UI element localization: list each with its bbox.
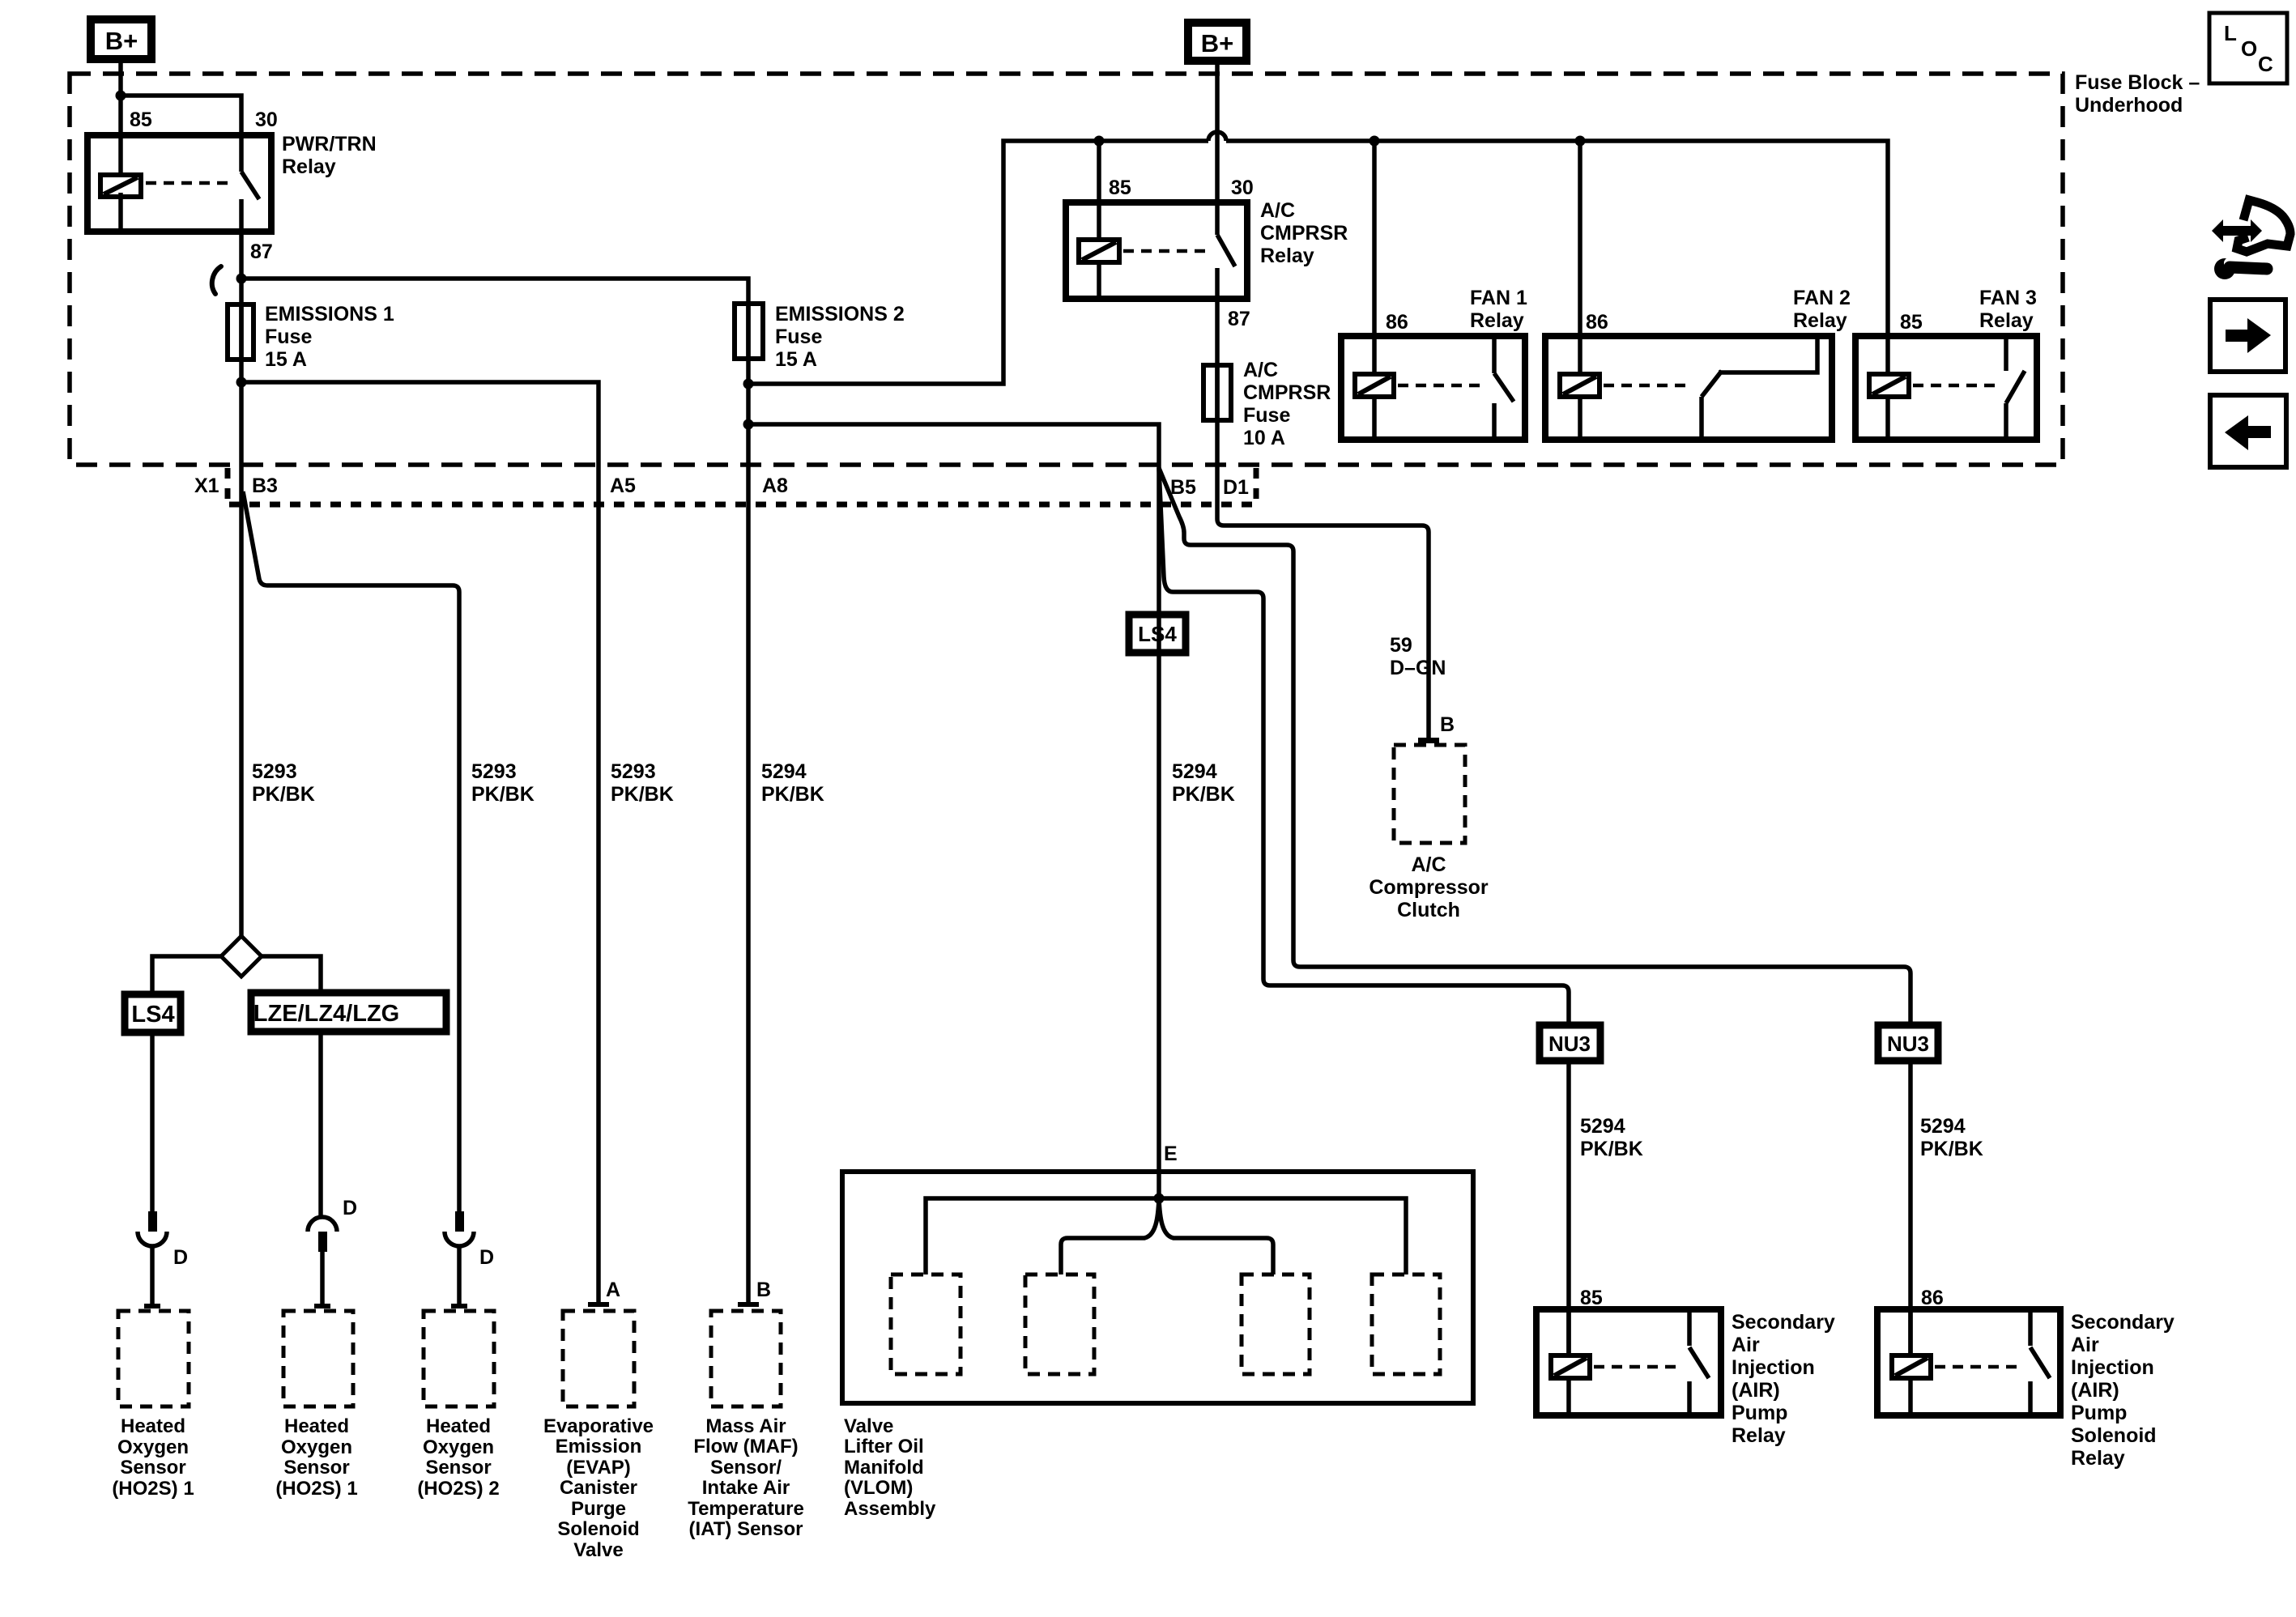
- svg-text:PWR/TRN: PWR/TRN: [282, 133, 377, 155]
- svg-text:PK/BK: PK/BK: [611, 783, 674, 806]
- svg-text:A5: A5: [610, 474, 636, 497]
- svg-text:LS4: LS4: [1138, 622, 1177, 646]
- svg-text:CMPRSR: CMPRSR: [1243, 381, 1331, 404]
- svg-text:Oxygen: Oxygen: [423, 1436, 494, 1458]
- svg-text:5293: 5293: [252, 760, 297, 783]
- svg-text:Purge: Purge: [571, 1498, 626, 1520]
- svg-text:Valve: Valve: [844, 1415, 893, 1437]
- svg-text:A/C: A/C: [1411, 853, 1446, 876]
- svg-text:FAN 3: FAN 3: [1979, 287, 2037, 309]
- svg-text:86: 86: [1586, 311, 1608, 334]
- svg-text:(EVAP): (EVAP): [566, 1457, 631, 1479]
- svg-text:(HO2S) 2: (HO2S) 2: [417, 1478, 499, 1500]
- svg-text:(AIR): (AIR): [2071, 1379, 2119, 1402]
- svg-text:D1: D1: [1223, 476, 1249, 499]
- svg-text:85: 85: [1109, 177, 1131, 199]
- svg-text:Fuse Block –: Fuse Block –: [2075, 71, 2200, 94]
- svg-text:B: B: [1440, 713, 1455, 736]
- svg-text:B+: B+: [1201, 29, 1234, 57]
- svg-text:Injection: Injection: [1732, 1356, 1815, 1379]
- svg-text:FAN 2: FAN 2: [1793, 287, 1851, 309]
- svg-text:D: D: [173, 1246, 188, 1269]
- svg-text:A/C: A/C: [1243, 359, 1278, 381]
- svg-text:A: A: [606, 1279, 620, 1301]
- svg-text:Air: Air: [2071, 1334, 2099, 1356]
- svg-text:59: 59: [1390, 634, 1412, 657]
- svg-text:Pump: Pump: [1732, 1402, 1787, 1424]
- svg-text:Flow (MAF): Flow (MAF): [693, 1436, 798, 1457]
- svg-text:10 A: 10 A: [1243, 427, 1285, 449]
- svg-text:Emission: Emission: [556, 1436, 642, 1457]
- svg-text:C: C: [2258, 52, 2273, 76]
- svg-text:5294: 5294: [1580, 1115, 1625, 1138]
- svg-text:A/C: A/C: [1260, 199, 1295, 222]
- svg-text:A8: A8: [762, 474, 788, 497]
- svg-text:Assembly: Assembly: [844, 1498, 936, 1520]
- svg-text:PK/BK: PK/BK: [1920, 1138, 1983, 1160]
- svg-text:Fuse: Fuse: [265, 326, 312, 348]
- svg-text:PK/BK: PK/BK: [252, 783, 315, 806]
- svg-text:Lifter Oil: Lifter Oil: [844, 1436, 924, 1457]
- svg-text:30: 30: [255, 109, 278, 131]
- svg-text:B: B: [756, 1279, 771, 1301]
- svg-text:Relay: Relay: [2071, 1447, 2125, 1470]
- svg-text:Sensor: Sensor: [120, 1457, 185, 1479]
- svg-text:Injection: Injection: [2071, 1356, 2154, 1379]
- svg-text:D: D: [343, 1197, 357, 1219]
- svg-text:B3: B3: [252, 474, 278, 497]
- svg-text:O: O: [2241, 36, 2257, 61]
- svg-text:5293: 5293: [471, 760, 517, 783]
- svg-text:Canister: Canister: [560, 1477, 637, 1499]
- svg-text:30: 30: [1231, 177, 1254, 199]
- svg-text:(HO2S) 1: (HO2S) 1: [275, 1478, 357, 1500]
- svg-text:Secondary: Secondary: [2071, 1311, 2175, 1334]
- svg-text:Pump: Pump: [2071, 1402, 2127, 1424]
- svg-text:PK/BK: PK/BK: [471, 783, 535, 806]
- svg-text:Solenoid: Solenoid: [557, 1518, 639, 1540]
- svg-text:5293: 5293: [611, 760, 656, 783]
- svg-text:B5: B5: [1170, 476, 1196, 499]
- svg-text:85: 85: [130, 109, 152, 131]
- svg-text:Sensor: Sensor: [425, 1457, 491, 1479]
- svg-text:(AIR): (AIR): [1732, 1379, 1780, 1402]
- svg-text:Air: Air: [1732, 1334, 1760, 1356]
- svg-text:Intake Air: Intake Air: [702, 1477, 790, 1499]
- svg-text:5294: 5294: [1172, 760, 1217, 783]
- svg-text:5294: 5294: [1920, 1115, 1966, 1138]
- svg-text:LS4: LS4: [131, 1002, 174, 1028]
- svg-text:NU3: NU3: [1548, 1032, 1591, 1056]
- svg-text:Relay: Relay: [1793, 309, 1847, 332]
- svg-text:Relay: Relay: [1470, 309, 1524, 332]
- svg-text:B+: B+: [105, 27, 138, 55]
- svg-text:Relay: Relay: [1732, 1424, 1786, 1447]
- svg-text:5294: 5294: [761, 760, 807, 783]
- svg-text:Sensor/: Sensor/: [710, 1457, 782, 1479]
- svg-text:EMISSIONS 2: EMISSIONS 2: [775, 303, 905, 326]
- svg-text:Manifold: Manifold: [844, 1457, 924, 1479]
- svg-text:Heated: Heated: [121, 1415, 185, 1437]
- svg-text:X1: X1: [194, 474, 219, 497]
- svg-text:Underhood: Underhood: [2075, 94, 2183, 117]
- svg-text:CMPRSR: CMPRSR: [1260, 222, 1348, 245]
- svg-text:Heated: Heated: [426, 1415, 491, 1437]
- svg-text:EMISSIONS 1: EMISSIONS 1: [265, 303, 394, 326]
- svg-text:(HO2S) 1: (HO2S) 1: [112, 1478, 194, 1500]
- svg-text:(VLOM): (VLOM): [844, 1477, 913, 1499]
- svg-text:D–GN: D–GN: [1390, 657, 1446, 679]
- svg-text:85: 85: [1900, 311, 1923, 334]
- svg-text:D: D: [479, 1246, 494, 1269]
- svg-text:Mass Air: Mass Air: [705, 1415, 786, 1437]
- svg-text:PK/BK: PK/BK: [761, 783, 824, 806]
- svg-text:85: 85: [1580, 1287, 1603, 1309]
- svg-text:86: 86: [1921, 1287, 1944, 1309]
- svg-text:Oxygen: Oxygen: [117, 1436, 189, 1458]
- svg-text:87: 87: [1228, 308, 1250, 330]
- svg-text:15 A: 15 A: [265, 348, 307, 371]
- svg-text:Fuse: Fuse: [1243, 404, 1290, 427]
- svg-text:L: L: [2224, 21, 2237, 45]
- svg-text:Fuse: Fuse: [775, 326, 822, 348]
- svg-text:NU3: NU3: [1887, 1032, 1929, 1056]
- svg-text:Heated: Heated: [284, 1415, 349, 1437]
- svg-text:Clutch: Clutch: [1397, 899, 1460, 921]
- svg-text:Valve: Valve: [573, 1539, 623, 1561]
- svg-text:Temperature: Temperature: [688, 1498, 804, 1520]
- svg-text:Relay: Relay: [1979, 309, 2034, 332]
- svg-text:FAN 1: FAN 1: [1470, 287, 1527, 309]
- svg-text:Sensor: Sensor: [283, 1457, 349, 1479]
- svg-text:Compressor: Compressor: [1369, 876, 1489, 899]
- svg-text:Evaporative: Evaporative: [543, 1415, 654, 1437]
- svg-text:PK/BK: PK/BK: [1580, 1138, 1643, 1160]
- svg-text:87: 87: [250, 240, 273, 263]
- svg-text:Relay: Relay: [1260, 245, 1314, 267]
- svg-text:Solenoid: Solenoid: [2071, 1424, 2157, 1447]
- svg-text:Secondary: Secondary: [1732, 1311, 1835, 1334]
- svg-text:Oxygen: Oxygen: [281, 1436, 352, 1458]
- svg-text:Relay: Relay: [282, 155, 336, 178]
- svg-text:86: 86: [1386, 311, 1408, 334]
- svg-text:(IAT) Sensor: (IAT) Sensor: [689, 1518, 803, 1540]
- svg-text:15 A: 15 A: [775, 348, 817, 371]
- svg-text:LZE/LZ4/LZG: LZE/LZ4/LZG: [253, 1001, 399, 1027]
- svg-text:PK/BK: PK/BK: [1172, 783, 1235, 806]
- svg-text:E: E: [1164, 1143, 1178, 1165]
